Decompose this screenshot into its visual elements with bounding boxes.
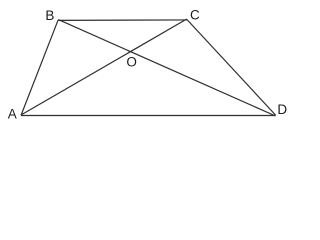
svg-text:O: O (126, 55, 137, 70)
side AD (21, 115, 276, 117)
diagonal BD (58, 20, 275, 116)
svg-text:B: B (45, 8, 54, 23)
svg-text:D: D (277, 102, 287, 117)
svg-text:A: A (8, 107, 17, 122)
side CD (187, 19, 276, 115)
diagonal AC (21, 19, 187, 115)
svg-text:C: C (190, 8, 200, 23)
side AB (21, 20, 58, 115)
side BC (58, 19, 187, 21)
